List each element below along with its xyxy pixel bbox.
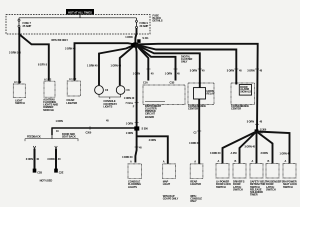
- svg-text:3 ORN: 3 ORN: [261, 152, 269, 155]
- svg-text:S 306: S 306: [142, 128, 149, 131]
- svg-text:3 ORN: 3 ORN: [247, 70, 255, 73]
- svg-text:4 ORN 40: 4 ORN 40: [122, 156, 133, 159]
- svg-text:TIMER: TIMER: [250, 193, 258, 197]
- svg-text:1 ORN: 1 ORN: [125, 36, 133, 39]
- svg-text:C200: C200: [86, 132, 92, 135]
- svg-text:CENTER: CENTER: [231, 107, 241, 111]
- svg-text:SWITCH: SWITCH: [283, 185, 293, 189]
- svg-text:C2E: C2E: [59, 172, 64, 175]
- svg-text:3 ORN: 3 ORN: [190, 70, 198, 73]
- svg-text:1 ORN: 1 ORN: [56, 120, 64, 123]
- svg-text:A 1 C2: A 1 C2: [14, 81, 22, 84]
- svg-text:B: B: [267, 160, 269, 163]
- svg-text:4 ORN 40: 4 ORN 40: [189, 142, 200, 145]
- svg-text:C1A: C1A: [143, 81, 148, 84]
- svg-text:CENTER: CENTER: [188, 107, 198, 111]
- svg-text:4 ORN: 4 ORN: [149, 139, 157, 142]
- svg-text:1 ORN: 1 ORN: [126, 132, 134, 135]
- svg-text:LIGHTER: LIGHTER: [190, 182, 201, 186]
- svg-text:BOARD: BOARD: [145, 115, 154, 119]
- svg-text:1 ORN 40: 1 ORN 40: [111, 64, 122, 67]
- svg-text:ONLY: ONLY: [190, 200, 197, 203]
- svg-text:S 211: S 211: [142, 37, 149, 40]
- svg-text:SIGNALS: SIGNALS: [240, 90, 251, 93]
- svg-text:SWITCH: SWITCH: [15, 101, 25, 105]
- svg-text:3 ORN 40: 3 ORN 40: [210, 152, 221, 155]
- svg-text:25 AMP: 25 AMP: [23, 24, 32, 28]
- svg-text:HOT AT ALL TIMES: HOT AT ALL TIMES: [68, 10, 92, 14]
- svg-text:A: A: [251, 160, 253, 163]
- svg-text:SWITCH: SWITCH: [233, 187, 243, 191]
- svg-text:3 ORN: 3 ORN: [26, 158, 34, 161]
- svg-text:A: A: [194, 161, 196, 164]
- svg-text:ONLY: ONLY: [181, 61, 188, 64]
- svg-text:LIGHTS: LIGHTS: [128, 185, 137, 189]
- svg-text:A: A: [130, 161, 132, 164]
- svg-text:FEEDBACK: FEEDBACK: [27, 134, 41, 138]
- svg-text:3 ORN: 3 ORN: [227, 70, 235, 73]
- svg-text:1 ORN: 1 ORN: [133, 73, 141, 76]
- svg-text:1 ORN: 1 ORN: [126, 122, 134, 125]
- svg-text:8 GRY 8: 8 GRY 8: [38, 64, 48, 67]
- svg-text:1 ORN 40: 1 ORN 40: [280, 153, 291, 156]
- svg-text:SEAT BACK: SEAT BACK: [62, 135, 76, 138]
- svg-text:SWITCH: SWITCH: [216, 185, 226, 189]
- svg-text:LIGHTER: LIGHTER: [66, 101, 77, 105]
- svg-text:7 C2xx: 7 C2xx: [125, 102, 133, 105]
- svg-text:LIGHTS: LIGHTS: [103, 104, 112, 108]
- svg-text:3 ORN: 3 ORN: [47, 158, 55, 161]
- svg-text:A: A: [217, 160, 219, 163]
- svg-text:LIGHT: LIGHT: [163, 182, 171, 186]
- svg-text:A 250: A 250: [231, 152, 238, 155]
- svg-text:1 ORN: 1 ORN: [165, 73, 173, 76]
- svg-text:DETAILS: DETAILS: [153, 20, 163, 23]
- svg-text:C2B: C2B: [37, 172, 42, 175]
- svg-text:3 ORN 40: 3 ORN 40: [245, 145, 256, 148]
- svg-text:NOT USED: NOT USED: [40, 179, 53, 183]
- svg-text:C1B: C1B: [170, 81, 175, 84]
- svg-text:COUPE ONLY: COUPE ONLY: [163, 197, 179, 200]
- svg-text:1 ORN 40: 1 ORN 40: [87, 64, 98, 67]
- svg-text:A 1 C2: A 1 C2: [69, 78, 77, 81]
- svg-text:20 AMP: 20 AMP: [140, 24, 149, 28]
- svg-text:A: A: [284, 160, 286, 163]
- svg-text:3 ORN 40: 3 ORN 40: [65, 48, 76, 51]
- svg-text:SWITCH: SWITCH: [266, 187, 276, 191]
- svg-text:1 ORN 40: 1 ORN 40: [124, 97, 135, 100]
- svg-text:3 ORN 140: 3 ORN 140: [9, 51, 21, 54]
- svg-text:3 ORN: 3 ORN: [247, 121, 255, 124]
- svg-text:CIRCUIT: CIRCUIT: [145, 111, 155, 115]
- svg-text:A: A: [163, 161, 165, 164]
- svg-text:B: B: [234, 160, 236, 163]
- svg-text:WITH B6 ONLY: WITH B6 ONLY: [51, 39, 68, 42]
- svg-text:MODULE: MODULE: [43, 108, 54, 112]
- svg-text:RELAY: RELAY: [207, 92, 215, 95]
